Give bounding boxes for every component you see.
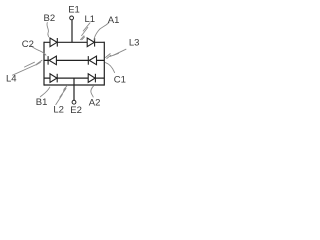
leader A2 [91,86,94,97]
svg-text:E1: E1 [68,4,80,15]
svg-text:L3: L3 [129,38,140,49]
leader B1 [40,87,50,97]
svg-text:B1: B1 [36,97,48,108]
wire left bus [43,42,45,86]
svg-text:L1: L1 [85,14,96,25]
svg-text:C2: C2 [22,39,34,50]
leader A1 [94,23,109,41]
svg-text:B2: B2 [44,13,56,24]
diode D1 left (row1, points right) [50,38,57,47]
wire row 3 [44,77,104,79]
diode D3 right (row3, points right) [88,74,95,83]
svg-text:A1: A1 [108,15,120,26]
wire bottom edge [44,84,104,86]
wire E1 lead [71,20,73,42]
wire E2 lead [73,78,75,100]
wire row 2 [44,59,104,61]
svg-text:L2: L2 [53,104,64,115]
svg-text:L4: L4 [6,73,17,84]
wire row 1 [44,41,104,43]
svg-text:A2: A2 [89,98,101,109]
svg-text:C1: C1 [114,74,126,85]
terminal E2 circle [72,100,76,104]
diode D1 right (row1, points right) [87,38,94,47]
arrow L3 (zigzag, tip down-left) [114,49,127,55]
leader B2 [47,23,49,37]
diode D2 right (row2, points left) [88,56,96,65]
wire right bus [103,42,105,86]
arrow L2 (zigzag, tip up-right) [56,94,63,104]
svg-text:E2: E2 [70,105,82,116]
diode D2 left (row2, points left) [48,56,56,65]
diode D3 left (row3, points right) [50,74,57,83]
leader C2 [31,46,46,55]
arrow L1 (zigzag, tip down-left) [83,23,90,31]
background [0,0,145,120]
leader C1 [105,63,114,73]
terminal E1 circle [70,16,74,20]
arrow L4 (zigzag, tip up-right) [13,65,37,76]
